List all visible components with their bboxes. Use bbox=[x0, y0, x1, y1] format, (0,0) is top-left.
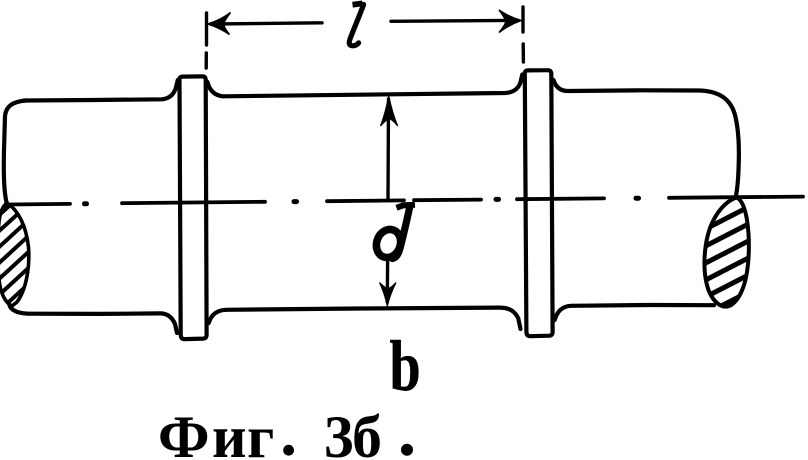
svg-text:б: б bbox=[352, 404, 382, 460]
svg-text:г: г bbox=[247, 404, 274, 460]
svg-text:3: 3 bbox=[324, 404, 354, 460]
svg-text:и: и bbox=[212, 404, 247, 460]
svg-text:b: b bbox=[390, 325, 421, 405]
svg-text:Ф: Ф bbox=[158, 404, 210, 460]
